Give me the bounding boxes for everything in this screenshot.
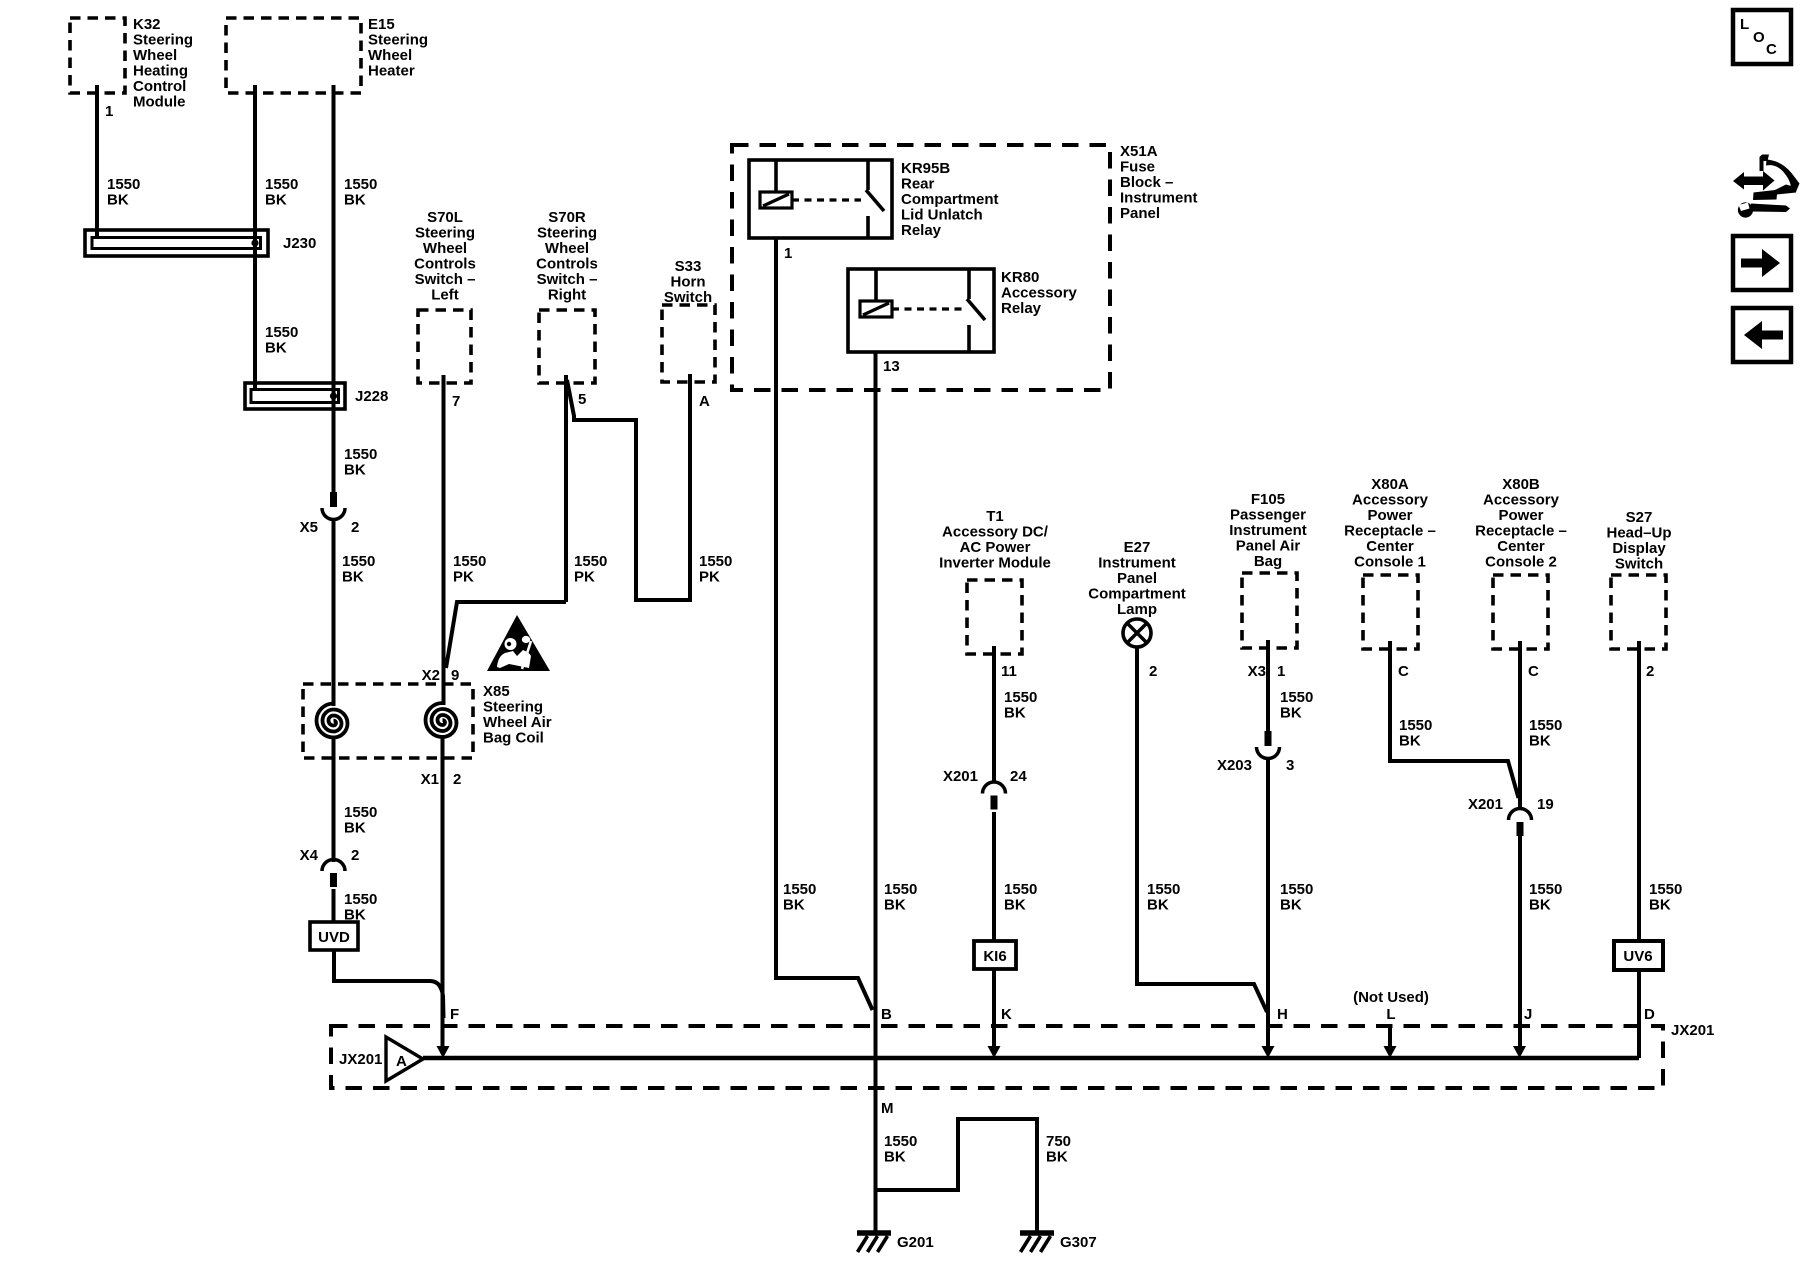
svg-text:1550: 1550 — [1529, 881, 1562, 898]
svg-text:1550: 1550 — [884, 881, 917, 898]
svg-text:Control: Control — [133, 78, 186, 95]
svg-text:Receptacle –: Receptacle – — [1475, 523, 1567, 540]
svg-text:Console 1: Console 1 — [1354, 554, 1426, 571]
svg-text:1550: 1550 — [1004, 881, 1037, 898]
svg-text:2: 2 — [453, 771, 461, 788]
svg-text:Power: Power — [1367, 507, 1412, 524]
svg-text:BK: BK — [107, 192, 129, 209]
svg-text:(Not Used): (Not Used) — [1353, 989, 1429, 1006]
svg-text:X3: X3 — [1248, 663, 1266, 680]
svg-text:Heating: Heating — [133, 63, 188, 80]
svg-text:Bag: Bag — [1254, 553, 1282, 570]
svg-text:13: 13 — [883, 358, 900, 375]
svg-text:Display: Display — [1612, 540, 1666, 557]
svg-text:1550: 1550 — [1280, 689, 1313, 706]
svg-text:Module: Module — [133, 94, 186, 111]
svg-text:2: 2 — [1646, 663, 1654, 680]
svg-text:Compartment: Compartment — [901, 191, 999, 208]
svg-text:KI6: KI6 — [983, 948, 1006, 965]
svg-text:J228: J228 — [355, 388, 388, 405]
svg-text:Accessory: Accessory — [1483, 492, 1560, 509]
svg-text:1: 1 — [784, 245, 792, 262]
svg-text:BK: BK — [1529, 733, 1551, 750]
svg-text:H: H — [1277, 1006, 1288, 1023]
svg-text:S70R: S70R — [548, 209, 586, 226]
svg-text:A: A — [396, 1053, 407, 1070]
svg-text:Steering: Steering — [133, 32, 193, 49]
svg-text:L: L — [1740, 16, 1749, 33]
svg-text:1550: 1550 — [344, 804, 377, 821]
svg-text:Head–Up: Head–Up — [1606, 525, 1671, 542]
svg-text:Receptacle –: Receptacle – — [1344, 523, 1436, 540]
svg-text:BK: BK — [1399, 733, 1421, 750]
svg-text:Accessory DC/: Accessory DC/ — [942, 524, 1049, 541]
svg-text:Panel Air: Panel Air — [1236, 538, 1301, 555]
svg-text:BK: BK — [1046, 1149, 1068, 1166]
svg-text:BK: BK — [265, 192, 287, 209]
svg-text:E15: E15 — [368, 16, 395, 33]
svg-text:X201: X201 — [943, 768, 978, 785]
svg-text:Center: Center — [1497, 538, 1545, 555]
svg-text:F105: F105 — [1251, 491, 1285, 508]
svg-text:T1: T1 — [986, 508, 1004, 525]
svg-text:1550: 1550 — [574, 553, 607, 570]
svg-text:1: 1 — [1277, 663, 1285, 680]
svg-text:Fuse: Fuse — [1120, 159, 1155, 176]
svg-text:X80A: X80A — [1371, 476, 1409, 493]
svg-text:Controls: Controls — [414, 256, 476, 273]
svg-text:1550: 1550 — [1280, 881, 1313, 898]
svg-text:BK: BK — [344, 192, 366, 209]
svg-text:KR95B: KR95B — [901, 160, 950, 177]
svg-text:1550: 1550 — [1399, 717, 1432, 734]
svg-text:BK: BK — [1004, 705, 1026, 722]
svg-text:2: 2 — [1149, 663, 1157, 680]
svg-text:S27: S27 — [1626, 509, 1653, 526]
svg-text:Panel: Panel — [1120, 205, 1160, 222]
svg-text:X80B: X80B — [1502, 476, 1540, 493]
svg-text:S33: S33 — [675, 258, 702, 275]
svg-text:7: 7 — [452, 393, 460, 410]
svg-text:BK: BK — [884, 897, 906, 914]
svg-text:JX201: JX201 — [339, 1051, 382, 1068]
svg-text:Steering: Steering — [368, 32, 428, 49]
svg-text:G307: G307 — [1060, 1234, 1097, 1251]
svg-text:Passenger: Passenger — [1230, 507, 1306, 524]
svg-text:BK: BK — [1147, 897, 1169, 914]
svg-text:C: C — [1398, 663, 1409, 680]
svg-text:BK: BK — [1280, 705, 1302, 722]
svg-text:M: M — [881, 1100, 894, 1117]
svg-text:Wheel: Wheel — [545, 240, 589, 257]
svg-text:Instrument: Instrument — [1229, 522, 1307, 539]
svg-text:BK: BK — [1004, 897, 1026, 914]
svg-text:1550: 1550 — [265, 324, 298, 341]
svg-text:L: L — [1386, 1006, 1395, 1023]
svg-text:X5: X5 — [300, 519, 318, 536]
svg-text:BK: BK — [1529, 897, 1551, 914]
svg-text:Lid Unlatch: Lid Unlatch — [901, 207, 983, 224]
svg-text:11: 11 — [1001, 663, 1017, 680]
svg-text:1550: 1550 — [783, 881, 816, 898]
svg-text:Bag Coil: Bag Coil — [483, 730, 544, 747]
svg-text:PK: PK — [574, 569, 595, 586]
svg-text:1550: 1550 — [1147, 881, 1180, 898]
svg-text:Wheel Air: Wheel Air — [483, 714, 552, 731]
svg-text:Relay: Relay — [901, 222, 942, 239]
svg-text:Lamp: Lamp — [1117, 601, 1157, 618]
svg-text:BK: BK — [342, 569, 364, 586]
svg-text:Inverter Module: Inverter Module — [939, 555, 1051, 572]
svg-text:1550: 1550 — [344, 176, 377, 193]
svg-text:J: J — [1524, 1006, 1532, 1023]
svg-text:X85: X85 — [483, 683, 510, 700]
svg-text:K32: K32 — [133, 16, 161, 33]
svg-text:Horn: Horn — [671, 274, 706, 291]
svg-text:Heater: Heater — [368, 63, 415, 80]
svg-text:X4: X4 — [300, 847, 319, 864]
svg-text:BK: BK — [344, 462, 366, 479]
svg-text:1550: 1550 — [699, 553, 732, 570]
svg-text:24: 24 — [1010, 768, 1027, 785]
svg-text:C: C — [1766, 41, 1777, 58]
svg-text:B: B — [881, 1006, 892, 1023]
svg-text:BK: BK — [265, 340, 287, 357]
svg-text:Steering: Steering — [415, 225, 475, 242]
svg-text:1550: 1550 — [107, 176, 140, 193]
svg-text:1550: 1550 — [1004, 689, 1037, 706]
svg-text:X51A: X51A — [1120, 143, 1158, 160]
svg-text:JX201: JX201 — [1671, 1022, 1714, 1039]
svg-text:1550: 1550 — [344, 446, 377, 463]
svg-text:750: 750 — [1046, 1133, 1071, 1150]
svg-text:1: 1 — [105, 103, 113, 120]
svg-text:K: K — [1001, 1006, 1012, 1023]
svg-text:BK: BK — [1280, 897, 1302, 914]
svg-text:Controls: Controls — [536, 256, 598, 273]
svg-text:UVD: UVD — [318, 929, 350, 946]
svg-text:BK: BK — [1649, 897, 1671, 914]
svg-text:2: 2 — [351, 847, 359, 864]
svg-text:BK: BK — [783, 897, 805, 914]
svg-text:Switch –: Switch – — [537, 271, 598, 288]
svg-text:Wheel: Wheel — [133, 47, 177, 64]
svg-text:Accessory: Accessory — [1001, 285, 1078, 302]
svg-text:Switch –: Switch – — [415, 271, 476, 288]
svg-text:BK: BK — [884, 1149, 906, 1166]
svg-text:X203: X203 — [1217, 757, 1252, 774]
svg-text:Console 2: Console 2 — [1485, 554, 1557, 571]
svg-text:X1: X1 — [421, 771, 439, 788]
svg-text:2: 2 — [351, 519, 359, 536]
svg-text:UV6: UV6 — [1623, 948, 1652, 965]
svg-text:1550: 1550 — [342, 553, 375, 570]
svg-text:Block –: Block – — [1120, 174, 1173, 191]
svg-text:C: C — [1528, 663, 1539, 680]
svg-text:X201: X201 — [1468, 796, 1503, 813]
svg-text:Rear: Rear — [901, 176, 935, 193]
svg-text:Left: Left — [431, 287, 459, 304]
svg-text:Switch: Switch — [664, 289, 712, 306]
svg-text:O: O — [1753, 29, 1765, 46]
svg-text:E27: E27 — [1124, 539, 1151, 556]
svg-text:19: 19 — [1537, 796, 1554, 813]
svg-text:Switch: Switch — [1615, 556, 1663, 573]
svg-text:Compartment: Compartment — [1088, 586, 1186, 603]
svg-text:5: 5 — [578, 391, 586, 408]
svg-text:Steering: Steering — [537, 225, 597, 242]
svg-text:3: 3 — [1286, 757, 1294, 774]
svg-text:D: D — [1644, 1006, 1655, 1023]
svg-text:PK: PK — [453, 569, 474, 586]
svg-text:Steering: Steering — [483, 699, 543, 716]
svg-text:F: F — [450, 1006, 459, 1023]
svg-text:BK: BK — [344, 907, 366, 924]
svg-text:Relay: Relay — [1001, 300, 1042, 317]
svg-text:1550: 1550 — [1529, 717, 1562, 734]
svg-text:J230: J230 — [283, 235, 316, 252]
svg-text:Power: Power — [1498, 507, 1543, 524]
svg-text:Instrument: Instrument — [1120, 190, 1198, 207]
svg-text:1550: 1550 — [265, 176, 298, 193]
svg-text:Center: Center — [1366, 538, 1414, 555]
svg-text:9: 9 — [451, 667, 459, 684]
svg-text:PK: PK — [699, 569, 720, 586]
svg-text:Right: Right — [548, 287, 586, 304]
svg-text:BK: BK — [344, 820, 366, 837]
svg-text:1550: 1550 — [1649, 881, 1682, 898]
svg-text:Instrument: Instrument — [1098, 555, 1176, 572]
svg-text:AC Power: AC Power — [960, 539, 1031, 556]
svg-text:Accessory: Accessory — [1352, 492, 1429, 509]
svg-text:Wheel: Wheel — [423, 240, 467, 257]
svg-text:KR80: KR80 — [1001, 269, 1039, 286]
svg-text:G201: G201 — [897, 1234, 934, 1251]
svg-text:1550: 1550 — [453, 553, 486, 570]
svg-text:A: A — [699, 393, 710, 410]
svg-text:X2: X2 — [422, 667, 440, 684]
svg-text:S70L: S70L — [427, 209, 463, 226]
svg-text:1550: 1550 — [344, 891, 377, 908]
svg-text:1550: 1550 — [884, 1133, 917, 1150]
svg-text:Wheel: Wheel — [368, 47, 412, 64]
svg-text:Panel: Panel — [1117, 570, 1157, 587]
